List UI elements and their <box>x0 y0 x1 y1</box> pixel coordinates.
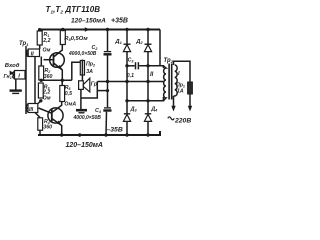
mid wire to C column tap <box>97 90 107 92</box>
node A junction <box>61 79 64 82</box>
right vertical from top rail <box>160 30 163 69</box>
svg-text:3А: 3А <box>86 69 93 75</box>
svg-text:ОмА: ОмА <box>64 102 76 108</box>
wire secondary bottom to output <box>173 96 175 108</box>
top rail wire <box>38 29 160 31</box>
transformer Tr2 secondary winding I <box>174 65 181 96</box>
svg-text:360: 360 <box>43 124 52 130</box>
ground below speaker <box>76 110 87 113</box>
svg-text:–35В: –35В <box>107 126 123 133</box>
resistor R2 <box>39 66 53 80</box>
svg-text:Д2: Д2 <box>135 39 143 45</box>
node dot D1 top <box>125 28 128 31</box>
node dot D3 bottom <box>125 133 128 136</box>
node dot C column mid <box>106 80 109 83</box>
resistor R1 <box>37 31 50 54</box>
svg-text:Ом: Ом <box>43 96 51 102</box>
wire speaker to ground and mid node <box>80 89 82 109</box>
svg-text:Вход: Вход <box>5 63 20 69</box>
node dot D2 column mid <box>146 80 149 83</box>
wire winding II to R2 with base tap <box>40 57 42 67</box>
resistor R5 <box>60 30 88 45</box>
node dot T2 emitter <box>60 133 63 136</box>
label ~220V <box>168 117 174 120</box>
capacitor C4 <box>73 82 112 136</box>
node dot C3 line at D1 <box>125 64 128 67</box>
loudspeaker Gr <box>79 76 98 92</box>
winding III of Tr1 <box>26 104 38 113</box>
top rail arrow <box>85 27 90 32</box>
svg-text:Д1: Д1 <box>114 39 122 45</box>
output arrow left <box>171 106 175 112</box>
svg-text:4000,0×50В: 4000,0×50В <box>68 51 97 57</box>
output arrow right <box>188 106 192 112</box>
winding I of Tr1 <box>13 71 25 80</box>
resistor R4 <box>38 118 52 131</box>
wire Tr2 primary bottom <box>127 97 163 101</box>
wire midpoint to node A <box>41 79 72 81</box>
svg-text:+35В: +35В <box>111 17 128 24</box>
centre-tap wire to Tr2 <box>97 81 163 83</box>
bottom rail wire <box>38 131 160 135</box>
svg-text:220В: 220В <box>174 117 191 124</box>
node dot D1 column mid <box>125 80 128 83</box>
node dot C2 top <box>106 28 109 31</box>
node dot R3 bottom <box>39 99 42 102</box>
winding II of Tr1 <box>27 49 40 57</box>
svg-text:Тр1: Тр1 <box>19 41 29 47</box>
svg-text:Тр2: Тр2 <box>164 58 174 64</box>
input jack Gn1 <box>4 71 15 81</box>
fuse Pr2 <box>80 60 96 77</box>
resistor R6 <box>60 80 77 107</box>
svg-text:R50,5Ом: R50,5Ом <box>64 36 88 42</box>
input ground <box>10 79 22 93</box>
node dot D4 bottom <box>146 133 149 136</box>
node dot C3 line at D2 <box>146 64 149 67</box>
bottom rail arrow <box>76 133 81 138</box>
svg-text:360: 360 <box>44 74 53 80</box>
wire node A jog to fuse <box>72 62 81 80</box>
node dot C mid tap <box>106 89 109 92</box>
wire winding III to R4 <box>35 113 40 118</box>
svg-text:II: II <box>150 72 154 78</box>
transformer Tr2 primary winding II <box>150 66 166 101</box>
svg-text:120–150мА: 120–150мА <box>71 18 106 25</box>
svg-text:2,2: 2,2 <box>42 38 50 44</box>
svg-text:120–150мА: 120–150мА <box>66 142 104 149</box>
wire R4 to bottom rail <box>39 130 41 135</box>
transistor T1 <box>44 45 65 81</box>
svg-text:II: II <box>31 51 35 57</box>
capacitor C3 <box>127 58 160 80</box>
node dot R5 top <box>61 28 64 31</box>
node dot primary bottom at D3 <box>125 99 128 102</box>
node dot C4 bottom <box>104 133 107 136</box>
svg-text:1А: 1А <box>177 88 184 94</box>
wire R1 bottom to winding II <box>39 45 41 49</box>
fuse Pr1 <box>176 82 192 108</box>
wire R3 bottom to winding III <box>38 101 41 104</box>
node dot R2/R3 midpoint <box>40 79 43 82</box>
svg-text:0,1: 0,1 <box>127 73 134 79</box>
diode D3 <box>123 106 137 135</box>
svg-text:Ом: Ом <box>43 48 51 54</box>
diode D4 <box>144 106 158 135</box>
title label T1,T2 DTG110V <box>46 5 101 15</box>
wire winding II to winding III <box>34 57 36 104</box>
diode D1 <box>114 30 130 114</box>
transformer Tr2 core <box>169 64 172 100</box>
node dot R1 top <box>38 28 41 31</box>
resistor R3 <box>38 83 50 102</box>
transistor T2 <box>39 102 64 136</box>
diode D2 <box>135 30 151 114</box>
capacitor C2 <box>68 30 112 82</box>
wire secondary top to fuse <box>174 61 191 82</box>
svg-text:4000,0×50В: 4000,0×50В <box>73 115 102 121</box>
transformer Tr1 core <box>25 46 27 114</box>
svg-text:Т1,Т2 ДТГ110В: Т1,Т2 ДТГ110В <box>46 5 101 15</box>
svg-text:III: III <box>29 107 34 113</box>
node dot D2 top <box>146 28 149 31</box>
node dot primary bottom at D4 <box>146 99 149 102</box>
svg-text:0,5: 0,5 <box>65 91 72 97</box>
